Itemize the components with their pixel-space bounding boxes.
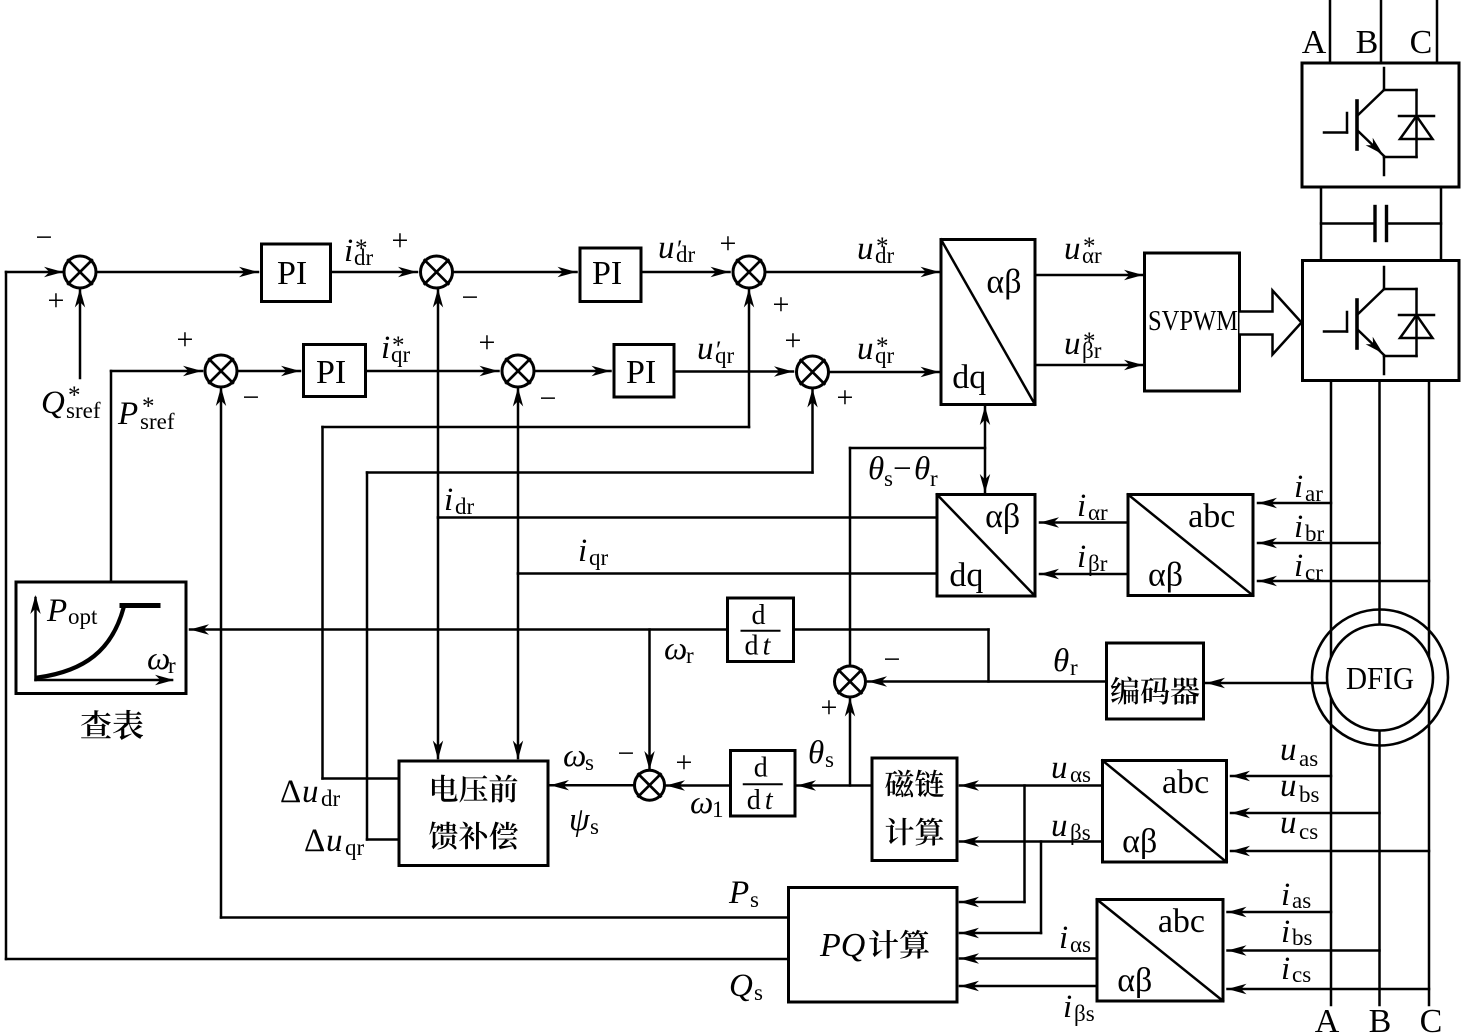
svg-text:dr: dr [875,243,895,268]
svg-text:qr: qr [715,343,735,368]
svg-text:qr: qr [391,342,411,367]
svg-text:i: i [1294,548,1303,584]
svg-text:Q: Q [729,968,753,1004]
svg-text:qr: qr [875,343,895,368]
Popt curve [38,608,124,678]
svg-text:u: u [857,331,874,367]
PQ calculation block (PQ jisuan) [789,888,958,1003]
svg-text:P: P [728,875,749,911]
svg-text:+: + [392,224,409,257]
wire PI1 to summer3 [331,271,418,274]
svg-text:θ: θ [808,735,824,771]
svg-text:P: P [117,396,138,432]
svg-text:s: s [754,980,763,1005]
wire u*beta-r to SVPWM [1035,364,1143,367]
wire u-as tap [1231,775,1331,778]
summing junction 6 (u-prime-qr + delta-uqr) [797,356,829,388]
svg-text:r: r [686,643,694,668]
svg-text:u: u [1064,326,1081,362]
svg-text:βr: βr [1082,338,1102,363]
IGBT with antiparallel diode (grid-side) [1324,68,1434,175]
svg-text:d: d [752,600,766,631]
wire summer4 to PI4 [534,370,611,373]
svg-text:−: − [893,451,912,487]
svg-text:+: + [720,227,737,260]
wire u*qr to dq-to-alphabeta block [829,371,940,374]
wire PI4 to summer6 [674,370,793,373]
svg-text:P: P [46,593,67,629]
svg-text:ω: ω [690,785,713,821]
svg-text:+: + [773,288,790,321]
svg-text:αβ: αβ [985,498,1020,535]
block SVPWM [1145,253,1240,391]
svg-text:ω: ω [664,631,687,667]
wire idr down to compensation block [437,518,440,759]
svg-text:+: + [821,691,838,724]
svg-text:u: u [658,230,675,266]
svg-text:u: u [1051,750,1068,786]
svg-text:cs: cs [1299,819,1318,844]
wire i-alpha-s into PQ block [960,957,1097,960]
wire delta-udr feedback [323,777,400,780]
wire Ps feedback up into P summer [220,389,223,918]
svg-text:d: d [747,785,761,816]
wire theta_s minus theta_r [849,448,852,666]
wire Ps feedback horizontal [221,916,789,919]
PI controller PI3 [304,345,366,397]
svg-text:C: C [1420,1003,1443,1033]
encoder block (bianmaqi) [1107,643,1204,719]
wire iqr feedback up into summer4 [517,389,520,574]
svg-text:u: u [857,231,874,267]
DFIG generator [1327,625,1433,731]
svg-text:s: s [884,466,893,491]
svg-text:−: − [540,382,557,415]
svg-text:θ: θ [1053,643,1069,679]
wire iqr down to compensation block [517,574,520,759]
block abc to alphabeta (stator voltages) [1103,761,1227,863]
wire into Q summer [6,271,63,274]
wire u-beta-s to flux block [960,840,1103,843]
svg-text:dq: dq [949,557,983,594]
svg-text:i: i [381,330,390,366]
svg-text:A: A [1302,24,1327,61]
svg-text:+: + [785,324,802,357]
svg-text:i: i [444,482,453,518]
wire Popt output up to P summer [110,371,113,582]
svg-text:i: i [1059,920,1068,956]
wire u-alpha-s to flux block [960,784,1103,787]
wire i-beta-r [1040,573,1128,576]
svg-text:B: B [1369,1003,1392,1033]
summing junction P (Psref vs Ps) [205,355,237,387]
svg-text:u: u [302,774,319,810]
svg-text:−: − [618,737,635,770]
svg-text:ω: ω [563,738,586,774]
svg-text:B: B [1356,24,1379,61]
summing junction 5 (u-prime-dr + delta-udr) [733,256,765,288]
wire i-as tap [1228,911,1332,914]
svg-text:C: C [1410,24,1433,61]
svg-text:ψ: ψ [569,802,590,838]
wire PI3 to summer4 [366,370,499,373]
wire i-cr tap [1258,580,1429,583]
svg-text:θ: θ [868,451,884,487]
wire u-beta-s branch into PQ block [1040,842,1043,934]
wire i-beta-s into PQ block [960,985,1097,988]
svg-text:u: u [1280,768,1297,804]
svg-text:Δ: Δ [304,823,325,859]
svg-text:r: r [168,653,176,678]
wire omega_s into compensation block [550,784,635,787]
svg-text:abc: abc [1162,764,1209,801]
grid phase line B top [1380,0,1383,63]
svg-text:as: as [1299,746,1318,771]
svg-text:PI: PI [277,255,307,292]
svg-text:+: + [48,284,65,317]
svg-text:dr: dr [676,242,696,267]
svg-text:s: s [590,814,599,839]
PI controller PI2 [580,248,641,302]
svg-text:abc: abc [1188,498,1235,535]
wire idr feedback up into summer3 [437,290,440,518]
block d/dt (synchronous speed) [731,751,796,817]
wire theta_s flux block to d/dt2 [797,784,872,787]
svg-text:αs: αs [1070,932,1091,957]
svg-text:dr: dr [354,245,374,270]
svg-text:PQ: PQ [819,927,865,964]
wire theta_r encoder to summer7 [868,680,1107,683]
svg-text:d: d [754,753,768,784]
rotor phase wire c [1428,381,1431,1006]
svg-text:sref: sref [140,409,175,434]
svg-text:−: − [462,281,479,314]
IGBT with antiparallel diode (rotor-side) [1324,267,1434,374]
wire idr from block to left [438,516,937,519]
svg-text:i: i [1281,877,1290,913]
svg-text:+: + [837,381,854,414]
svg-text:βs: βs [1074,1001,1095,1026]
block dq to alphabeta (rotor voltage refs) [941,240,1035,405]
lookup table block (chabiao) with Popt curve [16,582,186,694]
wire Qs feedback left vertical [5,272,8,959]
svg-text:PI: PI [626,354,656,391]
svg-text:Δ: Δ [280,774,301,810]
label chabiao [81,710,143,740]
wire theta_s up into summer7 [849,699,852,786]
PI controller PI1 [262,244,331,302]
svg-text:dr: dr [455,494,475,519]
svg-text:u: u [326,823,343,859]
svg-text:t: t [763,631,772,662]
svg-text:PI: PI [316,354,346,391]
wire i-alpha-r [1040,521,1128,524]
svg-text:i: i [1294,469,1303,505]
svg-text:i: i [344,233,353,269]
svg-text:αβ: αβ [1117,962,1152,999]
Popt axes [34,598,37,680]
svg-text:cs: cs [1292,962,1311,987]
summing junction 8 (omega_1 - omega_r) [635,770,665,800]
wire delta-uqr up into summer6 [811,390,814,473]
svg-text:−: − [36,221,53,254]
wire omega_1 to speed summer [666,784,731,787]
PI controller PI4 [614,345,674,398]
svg-text:u: u [1280,805,1297,841]
hollow arrow SVPWM to rotor-side converter [1240,291,1302,355]
svg-text:sref: sref [66,398,101,423]
wire u*alpha-r to SVPWM [1035,274,1143,277]
svg-text:s: s [750,887,759,912]
voltage feedforward compensation block (dianya qiankui buchang) [399,761,548,866]
block abc to alphabeta (rotor currents) [1128,495,1253,596]
svg-text:i: i [1281,951,1290,987]
wire Qsref input [79,290,82,378]
DC link right wire [1440,187,1443,261]
wire i-bs tap [1228,949,1380,952]
summing junction 4 (i*qr - iqr) [502,355,534,387]
svg-text:s: s [585,750,594,775]
svg-text:−: − [884,643,901,676]
summing junction 7 (theta_s - theta_r) [835,666,866,697]
svg-text:bs: bs [1299,782,1320,807]
svg-text:i: i [1063,989,1072,1025]
wire P summer to PI3 [237,370,300,373]
svg-text:i: i [1077,488,1086,524]
wire i-br tap [1258,542,1380,545]
svg-text:αβ: αβ [1148,556,1183,593]
wire summer3 to PI2 [453,271,577,274]
grid phase line A top [1329,0,1332,63]
wire theta_r branch to d/dt [987,630,990,682]
DC link capacitor [1321,222,1375,225]
svg-text:dr: dr [321,786,341,811]
wire u*dr to dq-to-alphabeta block [765,271,940,274]
svg-text:i: i [1281,914,1290,950]
svg-text:s: s [825,747,834,772]
wire u-cs tap [1231,850,1429,853]
svg-text:ω: ω [147,641,170,677]
svg-text:αr: αr [1082,243,1102,268]
wire omega_r branch down to speed summer [648,630,651,769]
wire Qs feedback bottom horizontal [6,958,789,961]
svg-text:+: + [177,323,194,356]
rotor phase wire a [1330,381,1333,1006]
wire delta-udr up into summer5 [748,290,751,427]
svg-text:d: d [745,631,759,662]
svg-text:bs: bs [1292,925,1313,950]
flux calculation block (cilian jisuan) [872,758,957,861]
rotor-side converter box [1303,261,1460,381]
wire iqr from block to left [518,572,937,575]
svg-text:i: i [1294,509,1303,545]
block d/dt (rotor speed) [728,598,794,662]
svg-text:as: as [1292,888,1311,913]
svg-text:SVPWM: SVPWM [1148,306,1238,337]
summing junction 3 (i*dr - idr) [421,256,453,288]
svg-text:−: − [243,381,260,414]
svg-text:+: + [676,746,693,779]
wire i-cs tap [1228,988,1430,991]
summing junction Q (Qs vs Qsref) [64,256,96,288]
svg-text:1: 1 [712,797,724,822]
wire DFIG to encoder [1206,682,1327,685]
wire u-alpha-s branch into PQ block [1023,786,1026,903]
svg-text:Q: Q [41,385,65,421]
svg-text:qr: qr [345,835,365,860]
svg-text:u: u [697,331,714,367]
svg-text:r: r [1070,655,1078,680]
svg-text:θ: θ [914,451,930,487]
wire u-bs tap [1231,812,1380,815]
svg-text:αβ: αβ [986,263,1021,300]
wire delta-uqr feedback [367,838,399,841]
grid phase line C top [1436,0,1439,63]
svg-text:u: u [1051,808,1068,844]
wire i-ar tap [1258,502,1331,505]
grid-side converter box [1302,63,1459,187]
block abc to alphabeta (stator currents) [1097,900,1223,1002]
svg-text:u: u [1280,732,1297,768]
wire omega_r to lookup table [190,628,728,631]
svg-text:u: u [1064,231,1081,267]
svg-text:DFIG: DFIG [1346,660,1414,696]
svg-text:+: + [479,326,496,359]
svg-text:βr: βr [1088,551,1108,576]
svg-text:i: i [1077,539,1086,575]
block alphabeta to dq (rotor currents) [937,495,1035,597]
svg-text:qr: qr [589,545,609,570]
svg-text:PI: PI [592,255,622,292]
rotor phase wire b [1378,381,1381,1006]
svg-text:αβ: αβ [1122,823,1157,860]
svg-text:t: t [765,785,774,816]
wire PI2 to summer5 [641,271,730,274]
svg-text:dq: dq [952,359,986,396]
svg-text:abc: abc [1158,903,1205,940]
svg-text:i: i [578,533,587,569]
DC link left wire [1320,187,1323,261]
svg-text:opt: opt [68,604,98,629]
svg-text:A: A [1315,1003,1340,1033]
svg-text:r: r [930,466,938,491]
wire Q summer to PI1 [96,271,258,274]
svg-text:αs: αs [1070,762,1091,787]
